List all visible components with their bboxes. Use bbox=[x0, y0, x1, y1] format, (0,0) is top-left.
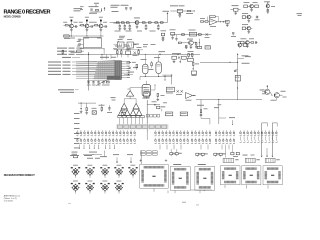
capacitor C41 input bbox=[170, 29, 176, 39]
led display DS6 bbox=[71, 181, 80, 194]
relay K1 box bbox=[92, 108, 97, 114]
buffer A2 bbox=[121, 103, 127, 109]
resistor R41 bbox=[182, 34, 185, 36]
resistor R33 feedback bbox=[208, 16, 219, 22]
node labels upper group bbox=[57, 48, 84, 55]
wire q10 collector bbox=[199, 39, 200, 48]
shield box T2 bbox=[84, 38, 102, 48]
resistor R13 bbox=[126, 22, 129, 23]
note bottom specks bbox=[68, 202, 199, 206]
resistor R71 bbox=[85, 103, 88, 114]
connector J3 row upper bbox=[191, 130, 211, 136]
filter FL3 bbox=[127, 39, 134, 48]
regulator cluster VR1 bbox=[89, 6, 106, 14]
capacitor C52 pair bbox=[231, 33, 236, 37]
diode D71 bbox=[80, 103, 83, 113]
titleblock text date bbox=[4, 201, 14, 203]
note tree left marks bbox=[111, 97, 116, 100]
wire J5 down feeds bbox=[261, 145, 273, 158]
wire long y62 bbox=[200, 62, 238, 63]
resistor pack RN0 bbox=[223, 158, 238, 162]
crystal Y1 bbox=[189, 30, 197, 36]
transistor Q6 cluster bbox=[264, 1, 275, 13]
resistor R62 bbox=[113, 48, 118, 57]
capacitor C31 bbox=[226, 20, 230, 26]
note bottom left cluster bbox=[161, 30, 167, 41]
connector J4 row upper bbox=[215, 130, 235, 136]
diode pack D81 bbox=[170, 149, 182, 156]
ic U1 core bar bbox=[115, 61, 121, 80]
buffer A6 bbox=[130, 110, 136, 116]
cluster right of U1 bbox=[124, 62, 138, 75]
resistor R32 bbox=[205, 21, 209, 22]
ic U25 qfp bbox=[263, 166, 282, 189]
ic U5 tiny box bbox=[198, 46, 202, 48]
resistor R12 bbox=[121, 22, 124, 23]
resistor R42 bbox=[198, 34, 201, 36]
ic U24 qfp bbox=[242, 166, 261, 189]
resistor R51 bbox=[178, 42, 184, 44]
capacitor C61 bbox=[77, 39, 84, 42]
node labels mid group bbox=[48, 62, 97, 75]
led display DS1 bbox=[71, 165, 80, 178]
wire stubs below J1 bbox=[79, 145, 115, 149]
capacitor C14 shunt bbox=[145, 23, 148, 30]
wire y104 right bbox=[147, 104, 160, 106]
svg-text:ABRHSM002-01: ABRHSM002-01 bbox=[4, 194, 21, 197]
node VCC top bbox=[94, 3, 99, 7]
resistor R31 bbox=[201, 21, 206, 22]
led display DS5 bbox=[128, 165, 137, 178]
wire opamp out bbox=[217, 21, 228, 23]
note c21 label bbox=[186, 12, 193, 15]
svg-text:MODEL CR34828: MODEL CR34828 bbox=[4, 15, 22, 18]
connector J1 row lower bbox=[76, 138, 135, 144]
diode D41 bbox=[205, 33, 210, 38]
wire mid connects bbox=[103, 151, 105, 157]
box x121 y112 bbox=[121, 110, 125, 115]
ic U7 box bbox=[126, 49, 131, 58]
led display DS4 bbox=[114, 165, 123, 178]
resistor pack RN1 bbox=[245, 158, 259, 162]
connector J2 row lower bbox=[155, 138, 189, 144]
resistor R67 bbox=[137, 47, 142, 56]
cluster diodes mid bbox=[159, 51, 166, 54]
transistor Q8 cluster bbox=[242, 24, 252, 33]
wire x147 vertical bbox=[146, 100, 148, 132]
wire stubs below J2-J4 bbox=[160, 145, 233, 158]
transistor Q3 stage bbox=[93, 17, 108, 32]
mixer cluster U2 bbox=[231, 5, 241, 14]
op-amp U10 bbox=[186, 93, 197, 101]
ic U23 qfp bbox=[220, 166, 240, 188]
led display DS3 bbox=[100, 165, 109, 178]
wire tree split2 bbox=[121, 108, 139, 111]
crystal Y2 can bbox=[141, 59, 149, 76]
wire vert x201 bbox=[200, 100, 202, 110]
transistor Q4 bbox=[134, 18, 140, 29]
resistor R61 above labels bbox=[62, 50, 76, 55]
connector J5 row upper bbox=[240, 130, 278, 136]
note mid bottom tiny bbox=[152, 101, 168, 103]
resistor R17 bbox=[160, 22, 163, 23]
wire mid horizontal bbox=[76, 54, 200, 55]
capacitor C13 shunt bbox=[128, 23, 131, 30]
note left of packs bbox=[243, 154, 255, 157]
filter FL2 bbox=[118, 39, 125, 48]
wire above U1 bbox=[114, 49, 143, 50]
diode pack D83 bbox=[214, 153, 226, 157]
wire stubs IC top bbox=[102, 54, 111, 59]
capacitor C21 bbox=[178, 13, 181, 18]
wire x219 to comb bbox=[219, 110, 226, 124]
note IF labels above bbox=[111, 5, 129, 8]
ic U4 small box bbox=[205, 46, 211, 49]
wire left y103 bbox=[78, 103, 96, 104]
svg-text:2/1/2006: 2/1/2006 bbox=[4, 201, 14, 203]
strip boxes y114 bbox=[146, 114, 160, 117]
inductor L1 on bias rail bbox=[64, 35, 70, 39]
parts x229-235 bbox=[229, 117, 235, 125]
ic U20 qfp bbox=[140, 159, 169, 192]
resistor pack RN2 bbox=[265, 158, 279, 162]
wire IF chain bbox=[110, 22, 168, 24]
wire mid cross bbox=[163, 75, 173, 85]
node label extra bbox=[62, 57, 80, 58]
transistor Q13 bbox=[262, 91, 287, 101]
wire below qfp row bbox=[168, 190, 212, 193]
filter FL1 bbox=[172, 9, 187, 12]
capacitor C16 bbox=[125, 8, 127, 11]
capacitor row under U1 bbox=[87, 81, 110, 86]
capacitor C62 bbox=[77, 43, 84, 46]
wire tree outputs bbox=[119, 118, 142, 130]
transistor Q12 bbox=[260, 85, 270, 94]
transistor Q5 cluster bbox=[244, 2, 259, 11]
titleblock text sheet bbox=[4, 197, 17, 200]
resistor R81 col bbox=[197, 105, 208, 116]
note right labels bbox=[242, 55, 250, 63]
capacitor C15 shunt bbox=[157, 23, 160, 30]
note display labels top bbox=[70, 154, 133, 163]
detector cluster D63 D64 bbox=[172, 53, 186, 63]
connector J5 row lower stubs bbox=[240, 137, 278, 143]
node labels lower group bbox=[58, 89, 79, 93]
transistor Q10 bbox=[184, 39, 193, 49]
resistor R65 col bbox=[192, 62, 199, 70]
note RECEIVER INTERCONNECT bbox=[4, 174, 35, 177]
note interconnect tiny bbox=[72, 152, 103, 159]
wire mid cross2 bbox=[140, 76, 172, 80]
title RANGE 0 RECEIVER bbox=[4, 10, 51, 16]
led display DS9 bbox=[114, 181, 123, 194]
connector J2 row upper bbox=[155, 130, 189, 136]
resistor R68 mid bbox=[149, 61, 154, 70]
wire x147 vert2 bbox=[146, 132, 148, 140]
note top tiny 1 bbox=[74, 8, 83, 11]
wire vertical bus left of U1 bbox=[88, 52, 90, 91]
resistor R15 bbox=[148, 22, 151, 23]
resistor R11 bbox=[116, 22, 119, 23]
note above U1 texts bbox=[115, 44, 139, 47]
note U1 top label bbox=[100, 57, 116, 58]
resistor R66 gnd bbox=[156, 93, 164, 100]
svg-text:(Sheet 1 of 1): (Sheet 1 of 1) bbox=[4, 197, 17, 200]
capacitor C22 bbox=[255, 16, 260, 20]
wire tree split1 bbox=[124, 96, 136, 103]
capacitor C17 bbox=[130, 8, 132, 11]
ic U1 pin fan (hatched) bbox=[76, 60, 115, 79]
capacitor C12 shunt bbox=[123, 23, 126, 30]
ic U22 qfp bbox=[195, 164, 215, 193]
transistor Q2 stage bbox=[79, 17, 94, 32]
capacitor C51 bbox=[185, 45, 188, 48]
capacitor C71 bbox=[107, 105, 112, 113]
op-amp U3 bbox=[209, 19, 217, 26]
wire bus J5 bbox=[262, 123, 278, 145]
resistor R21 bbox=[188, 10, 195, 11]
ic U9 box bbox=[166, 87, 174, 93]
transistor Q11 cluster bbox=[237, 41, 247, 48]
connector J3 row lower bbox=[191, 138, 211, 144]
subtitle MODEL CR34828 bbox=[4, 15, 22, 18]
wire chain2 stub bbox=[175, 35, 178, 41]
resistor R64 pair bbox=[187, 51, 193, 61]
resistor array RN3 bbox=[141, 151, 158, 155]
wire top right chain bbox=[170, 5, 185, 11]
resistor R63 bbox=[121, 51, 123, 58]
ic U11 box bbox=[235, 75, 240, 81]
resistor R16 bbox=[155, 22, 158, 23]
ic U8 box bbox=[191, 71, 196, 76]
diode cluster D65 bbox=[176, 90, 183, 95]
titleblock text ABRHSM002-01 bbox=[4, 194, 21, 197]
wire vert x219 bbox=[218, 100, 220, 111]
box pair y112 bbox=[165, 112, 187, 116]
wire IF up bbox=[163, 11, 170, 23]
resistor row under tree bbox=[118, 116, 145, 118]
wire stage stubs bbox=[71, 32, 101, 36]
wire chain2 bbox=[171, 34, 212, 36]
diode D62 bbox=[133, 52, 138, 56]
transistor Q1 stage bbox=[63, 17, 78, 32]
wire filters bbox=[114, 41, 137, 45]
wire under shield bbox=[80, 48, 105, 54]
ic U6 tiny bbox=[77, 48, 82, 53]
wire bias rail bbox=[64, 35, 104, 36]
parts x155-165 bbox=[155, 105, 165, 112]
note right tiny bbox=[297, 13, 303, 16]
note top tiny 2 bbox=[112, 10, 119, 13]
ic U12 box right bbox=[144, 92, 150, 98]
ic U21 qfp bbox=[170, 164, 190, 193]
capacitor C11 shunt bbox=[118, 23, 121, 30]
led display DS7 bbox=[85, 181, 94, 194]
resistor R52 bbox=[193, 42, 197, 48]
buffer A5 bbox=[124, 110, 130, 116]
note chain labels below bbox=[115, 30, 156, 33]
note opamp labels bbox=[200, 18, 216, 27]
wire can links bbox=[145, 54, 159, 61]
wire x141 vert bbox=[140, 151, 142, 165]
led display DS8 bbox=[100, 181, 109, 194]
resistor R14 bbox=[142, 22, 145, 23]
wire T1 right bbox=[151, 85, 156, 90]
led display DS2 bbox=[85, 165, 94, 178]
wire J3 hook bbox=[201, 115, 210, 125]
label band bbox=[116, 124, 168, 129]
wire long y99 bbox=[196, 99, 262, 100]
ic U1 bottom pins dark bbox=[96, 76, 121, 86]
crystal Y3 can bbox=[154, 57, 161, 76]
diode pack D85 bbox=[231, 152, 240, 156]
transistor Q7 cluster bbox=[242, 13, 252, 22]
note tiny x211 bbox=[214, 104, 221, 108]
buffer A7 bbox=[136, 110, 142, 116]
transistor Q9 cluster bbox=[240, 38, 257, 47]
note stage label right bbox=[114, 22, 120, 25]
ic U1 right pins bbox=[121, 61, 129, 78]
buffer A4 bbox=[118, 110, 124, 116]
svg-text:RECEIVER INTERCONNECT: RECEIVER INTERCONNECT bbox=[4, 174, 35, 177]
connector J4 row lower bbox=[215, 138, 235, 144]
buffer A1 top bbox=[126, 88, 146, 97]
diode pack D82 bbox=[196, 153, 208, 157]
wire top left stub bbox=[80, 6, 84, 10]
buffer A3 bbox=[133, 103, 139, 109]
note rail labels bbox=[70, 37, 101, 40]
transformer T1 can bbox=[142, 81, 151, 99]
resistor R72 bbox=[99, 104, 105, 112]
wire vert x238 bbox=[234, 53, 251, 100]
connector J1 row upper bbox=[76, 130, 135, 136]
note left tiny col bbox=[74, 113, 80, 148]
note filters text bbox=[119, 36, 155, 47]
